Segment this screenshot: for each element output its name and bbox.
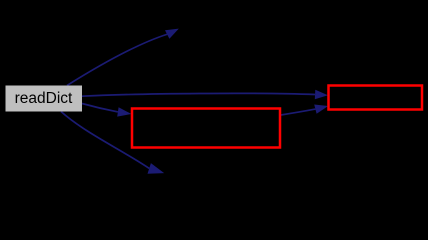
svg-text:readDict: readDict <box>15 90 73 107</box>
